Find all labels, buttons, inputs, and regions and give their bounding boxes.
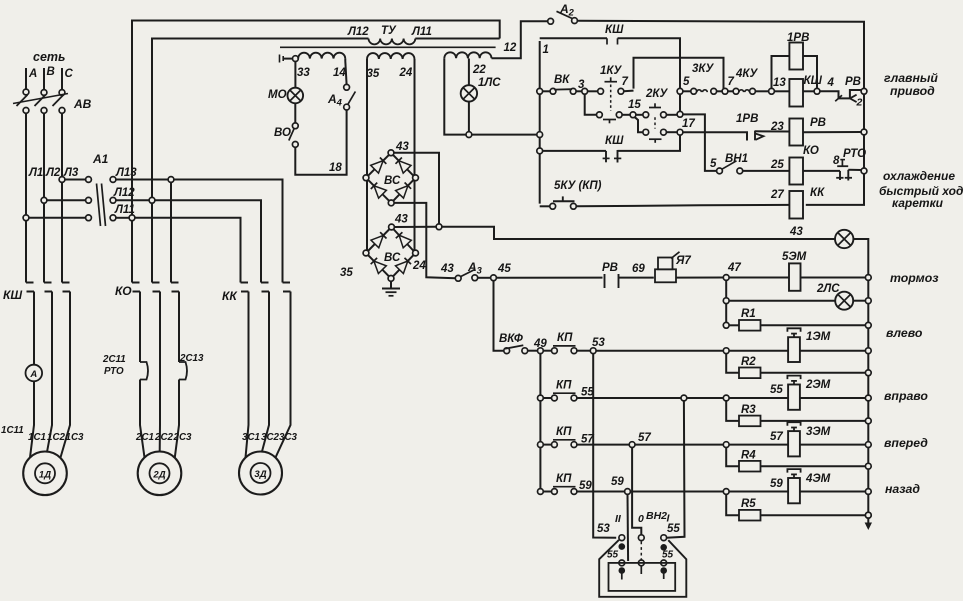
- svg-text:4: 4: [827, 77, 835, 89]
- wire to vpravo node: [687, 397, 724, 399]
- svg-text:R3: R3: [741, 404, 756, 416]
- svg-text:1С2: 1С2: [47, 432, 66, 443]
- ammeter A: [26, 365, 43, 382]
- svg-text:23: 23: [770, 121, 784, 133]
- wire VN1 to KO coil: [743, 170, 790, 172]
- contact 2KU upper: [643, 112, 649, 118]
- svg-text:охлаждение: охлаждение: [883, 169, 955, 183]
- contact VKF: [504, 348, 510, 354]
- svg-text:1КУ: 1КУ: [600, 65, 622, 77]
- svg-text:18: 18: [329, 162, 342, 174]
- node bus vlevo: [865, 348, 871, 354]
- svg-text:49: 49: [533, 338, 547, 350]
- wire nazad to 4EM: [729, 491, 788, 493]
- secondary winding 33-14: [298, 53, 345, 59]
- wire 22 right to switch A2: [492, 21, 548, 58]
- resistor R3: [726, 401, 739, 421]
- wire to node 17: [666, 131, 677, 133]
- svg-text:2С11: 2С11: [102, 354, 126, 365]
- node bus 2LS: [865, 298, 871, 304]
- svg-text:5: 5: [710, 158, 717, 170]
- wire 2LS row: [729, 300, 835, 302]
- node nazad: [723, 489, 729, 495]
- wire KP1 to node 53: [577, 350, 591, 352]
- relay coil KSh: [789, 79, 803, 107]
- wire vlevo to 1EM: [729, 350, 788, 352]
- wire VO down and bottom of MO loop: [295, 110, 346, 175]
- node 59: [625, 489, 631, 495]
- wire row L12 left: [47, 199, 86, 201]
- node 17: [677, 129, 683, 135]
- svg-text:2С2: 2С2: [154, 432, 174, 443]
- wire phase C to contactor rows: [61, 113, 63, 177]
- node 4: [814, 88, 820, 94]
- wire node5 column: [679, 91, 681, 112]
- switch VN2 lower contacts: [619, 560, 625, 566]
- wire 1LS down: [468, 102, 470, 132]
- svg-text:3С1: 3С1: [242, 432, 260, 443]
- wire Ya7 to node 47: [676, 277, 724, 279]
- svg-text:3С2: 3С2: [261, 432, 280, 443]
- wire A3 to node 45: [478, 277, 491, 279]
- svg-text:РВ: РВ: [602, 262, 618, 274]
- wire phase B: [43, 68, 45, 90]
- svg-text:22: 22: [472, 64, 486, 76]
- wire node45 to RV contact: [496, 277, 602, 279]
- wire motor3 mid: [262, 292, 269, 452]
- motor 3D: [239, 452, 282, 495]
- rectifier bridge VS1: [363, 150, 418, 206]
- node vpravo: [723, 395, 729, 401]
- wire phase A: [25, 68, 27, 89]
- svg-text:КП: КП: [557, 332, 573, 344]
- svg-text:ВН1: ВН1: [725, 153, 748, 165]
- wire KO coil to RTO: [803, 170, 840, 172]
- wire node5a to VN1: [683, 114, 717, 170]
- resistor R5: [726, 494, 739, 515]
- wire R1 to bus: [761, 324, 866, 326]
- svg-text:ТУ: ТУ: [381, 25, 397, 37]
- wire 2KU to node 5a: [666, 114, 677, 116]
- wire to vpered node: [635, 444, 724, 446]
- solenoid coil 5EM: [789, 263, 801, 290]
- wire bridge1 plus to node 43: [394, 153, 439, 224]
- svg-text:4ЭМ: 4ЭМ: [805, 473, 831, 485]
- control bus node 1: [539, 41, 541, 204]
- wire node 43 to brake lamp line: [442, 227, 835, 239]
- wire to RV coil: [755, 130, 789, 132]
- lamp 1LS: [461, 85, 477, 101]
- svg-text:КШ: КШ: [605, 24, 624, 36]
- svg-text:Л3: Л3: [63, 167, 79, 179]
- svg-text:2С3: 2С3: [173, 432, 193, 443]
- wire lamp43 to bus: [853, 239, 868, 513]
- wire 2EM to bus: [801, 397, 866, 399]
- wire motor1 right: [61, 292, 71, 458]
- wire node15 to 2KU lower: [635, 117, 644, 132]
- svg-text:4КУ: 4КУ: [735, 68, 758, 80]
- svg-text:1С3: 1С3: [66, 432, 85, 443]
- svg-text:3Д: 3Д: [254, 469, 266, 480]
- switch VO: [292, 123, 298, 129]
- svg-text:59: 59: [579, 480, 592, 492]
- wire row L13 left: [65, 179, 86, 181]
- svg-text:5КУ (КП): 5КУ (КП): [554, 180, 602, 192]
- switch VN2 contact II: [619, 535, 625, 541]
- node 13: [769, 88, 775, 94]
- svg-text:Я7: Я7: [675, 255, 691, 267]
- wire node15 to 2KU: [636, 114, 643, 116]
- svg-text:2Д: 2Д: [152, 470, 165, 481]
- shield symbol at winding 33: [279, 55, 281, 63]
- svg-text:1Д: 1Д: [39, 470, 51, 481]
- node 49: [538, 348, 544, 354]
- wire to nazad node: [630, 491, 723, 493]
- svg-text:3: 3: [578, 79, 585, 91]
- svg-text:тормоз: тормоз: [890, 271, 939, 285]
- contact 1KU NO: [598, 88, 604, 94]
- svg-text:7: 7: [728, 76, 735, 88]
- node 5a: [677, 111, 683, 117]
- wire motor3 right: [276, 292, 291, 458]
- wire 35 to bridges: [366, 59, 368, 250]
- wire RV coil to bus: [803, 131, 861, 133]
- wire 57 to VN2 position 0: [632, 447, 641, 535]
- wire motor2 mid: [159, 292, 161, 452]
- wire 1KU up to net7: [624, 90, 634, 93]
- relay coil 1RV branch: [772, 56, 790, 89]
- node tap L3: [59, 177, 65, 183]
- svg-text:КО: КО: [803, 145, 819, 157]
- node 2LS row: [723, 298, 729, 304]
- svg-text:43: 43: [789, 226, 803, 238]
- svg-text:1ЛС: 1ЛС: [478, 77, 501, 89]
- contact 4KU: [733, 88, 739, 94]
- svg-text:1РВ: 1РВ: [736, 113, 758, 125]
- svg-text:КШ: КШ: [605, 135, 624, 147]
- svg-text:КО: КО: [115, 284, 132, 298]
- svg-text:ВС: ВС: [384, 252, 401, 264]
- wire 2LS to bus: [853, 300, 865, 302]
- contactor KSh main contacts: [26, 283, 70, 292]
- switch A3: [455, 275, 461, 281]
- svg-text:5: 5: [683, 76, 690, 88]
- wire node3 to 1KU: [587, 90, 598, 92]
- contact VK: [550, 88, 556, 94]
- wire row L11 left: [29, 217, 86, 219]
- wire 1EM to bus: [801, 350, 866, 352]
- svg-text:РТО: РТО: [104, 366, 124, 377]
- svg-text:43: 43: [440, 263, 454, 275]
- wire phase B to contactor rows: [43, 113, 45, 198]
- svg-text:69: 69: [632, 263, 645, 275]
- node R1 row: [723, 322, 729, 328]
- node bus 1LS: [537, 132, 543, 138]
- wire KSh coil to node 4: [803, 90, 814, 92]
- svg-text:17: 17: [682, 118, 695, 130]
- svg-text:2ЛС: 2ЛС: [816, 283, 840, 295]
- node 3: [582, 88, 588, 94]
- svg-text:55: 55: [662, 550, 674, 561]
- node junction L13: [168, 177, 174, 183]
- solenoid 4EM with armature: [788, 478, 800, 503]
- circuit breaker AB: [13, 89, 68, 113]
- svg-text:РТО: РТО: [843, 148, 866, 160]
- svg-text:3ЭМ: 3ЭМ: [806, 426, 831, 438]
- svg-text:сеть: сеть: [33, 50, 65, 64]
- motor 2D: [138, 452, 182, 496]
- contactor KK main contacts: [241, 283, 291, 292]
- svg-text:КП: КП: [556, 473, 572, 485]
- svg-text:13: 13: [773, 77, 786, 89]
- plug Ya7: [655, 269, 676, 282]
- svg-text:РВ: РВ: [845, 76, 861, 88]
- svg-text:0: 0: [638, 513, 644, 525]
- svg-text:Л2: Л2: [45, 167, 61, 179]
- contact 1RV time delay: [683, 132, 747, 140]
- svg-text:влево: влево: [886, 326, 923, 340]
- wire KP column: [539, 353, 541, 491]
- svg-text:R4: R4: [741, 450, 756, 462]
- wire vpravo row: [577, 397, 682, 399]
- resistor R2: [726, 353, 739, 372]
- solenoid 3EM with armature: [788, 431, 800, 456]
- wire KSh aux row: [540, 150, 606, 152]
- node 15: [630, 112, 636, 118]
- svg-text:каретки: каретки: [892, 196, 944, 210]
- wire aux to node17: [618, 135, 681, 151]
- wire row L13 right: [116, 179, 169, 181]
- node junction L12: [149, 197, 155, 203]
- wire net 7 link: [634, 58, 724, 89]
- relay coil 1RV: [789, 43, 803, 70]
- wire nazad row: [577, 491, 625, 493]
- switch VN2 contact 0: [638, 535, 644, 541]
- contact KSh NC top: [606, 38, 608, 44]
- svg-text:1С11: 1С11: [1, 425, 24, 436]
- wire motor2 left with RTO heater 2C11: [139, 292, 141, 363]
- push button 5KU(KP): [540, 205, 550, 207]
- svg-text:А1: А1: [92, 152, 109, 166]
- wire vpered to 3EM: [729, 444, 788, 446]
- lamp MO: [288, 88, 304, 104]
- resistor R1: [729, 324, 739, 326]
- wire motor2 right with RTO heater 2C13: [178, 292, 180, 363]
- contact 3KU: [691, 88, 697, 94]
- node 7b: [722, 88, 728, 94]
- node 55 drop: [681, 395, 687, 401]
- relay coil RV: [789, 119, 803, 146]
- contact RV NO brake: [604, 274, 606, 288]
- node 45: [491, 275, 497, 281]
- node vlevo: [723, 348, 729, 354]
- svg-text:57: 57: [638, 432, 651, 444]
- switch VN2 contact I: [661, 535, 667, 541]
- lamp MO branch wire: [294, 61, 296, 87]
- svg-text:А: А: [29, 369, 37, 380]
- node bus bottom: [865, 512, 871, 518]
- svg-text:Л13: Л13: [115, 167, 137, 179]
- contact KP row4 (59): [538, 489, 544, 495]
- svg-text:КК: КК: [810, 187, 825, 199]
- node tap L2: [41, 197, 47, 203]
- svg-text:главный: главный: [884, 71, 938, 85]
- wire 22 left down: [444, 58, 466, 134]
- wire 5EM to bus: [800, 277, 865, 279]
- svg-text:С: С: [65, 68, 74, 80]
- node bus vpravo: [865, 395, 871, 401]
- svg-text:43: 43: [395, 141, 409, 153]
- wire motor1 mid: [47, 292, 52, 453]
- svg-text:59: 59: [770, 478, 783, 490]
- rectifier bridge VS2: [363, 224, 418, 281]
- svg-text:14: 14: [333, 67, 346, 79]
- contactor A1: [86, 177, 116, 226]
- node junction L11: [129, 215, 135, 221]
- svg-text:А: А: [28, 68, 37, 80]
- wire vpered row: [577, 444, 630, 446]
- svg-text:КП: КП: [556, 426, 572, 438]
- motor 1D: [23, 452, 67, 496]
- lamp 43 brake: [835, 230, 853, 248]
- svg-text:7: 7: [622, 76, 629, 88]
- lamp 2LS: [835, 292, 853, 310]
- svg-text:КШ: КШ: [804, 75, 823, 87]
- contact RV time delay with arrow 2: [820, 91, 850, 98]
- contact KP row3 (57): [538, 442, 544, 448]
- svg-text:Л1: Л1: [28, 167, 43, 179]
- node 1LS bottom: [466, 132, 472, 138]
- svg-text:ВК: ВК: [554, 74, 570, 86]
- node 43: [436, 224, 442, 230]
- svg-text:55: 55: [770, 384, 783, 396]
- svg-text:45: 45: [497, 263, 511, 275]
- node 47: [723, 275, 729, 281]
- node 33: [293, 56, 299, 62]
- node 53: [590, 348, 596, 354]
- wire 59 to VN2 bottom: [627, 494, 630, 561]
- wire node7b to 4KU: [728, 90, 734, 92]
- wire phase C to KSh: [61, 182, 63, 282]
- secondary winding 22: [444, 52, 468, 58]
- svg-text:АВ: АВ: [73, 97, 92, 111]
- wire lamp 1LS tap: [468, 59, 470, 86]
- wire row1 from bus: [542, 90, 550, 92]
- svg-text:47: 47: [727, 262, 741, 274]
- svg-text:59: 59: [611, 476, 624, 488]
- secondary winding 35-24: [367, 53, 414, 59]
- wire motor3 left: [246, 292, 249, 458]
- wire KSh holdback row: [540, 37, 607, 39]
- svg-text:1ЭМ: 1ЭМ: [806, 331, 831, 343]
- wire phase A to KSh: [25, 221, 27, 283]
- svg-text:1РВ: 1РВ: [787, 32, 809, 44]
- node 57: [629, 442, 635, 448]
- svg-text:53: 53: [597, 523, 610, 535]
- transformer TU primary winding: [369, 39, 416, 45]
- wire phase A to contactor rows: [25, 113, 27, 215]
- svg-text:1: 1: [543, 44, 549, 56]
- wire row L12 right: [116, 199, 150, 201]
- wire row L11 right: [116, 217, 130, 219]
- svg-text:57: 57: [770, 431, 783, 443]
- wire node49 to KP1: [543, 350, 552, 352]
- node bus R1: [865, 322, 871, 328]
- svg-text:35: 35: [340, 267, 353, 279]
- ground: [390, 281, 392, 288]
- node 5 row1: [677, 88, 683, 94]
- contact KP row2 (55): [538, 395, 544, 401]
- svg-text:33: 33: [297, 67, 310, 79]
- switch VN2 inner frame: [609, 563, 676, 591]
- wire node13 to KSh coil: [774, 90, 789, 92]
- svg-text:ВКФ: ВКФ: [499, 333, 523, 345]
- wire 4EM to bus: [801, 491, 866, 493]
- switch VN2 outer frame: [599, 540, 686, 597]
- wire KO drop right: [170, 182, 172, 282]
- wire phase C: [61, 68, 63, 90]
- svg-text:3КУ: 3КУ: [692, 63, 714, 75]
- wire bridge2 plus to node 43: [394, 226, 436, 228]
- wire node47 down: [725, 280, 727, 322]
- svg-text:вперед: вперед: [884, 436, 928, 450]
- svg-text:Л11: Л11: [411, 26, 432, 38]
- wire to node 15: [622, 114, 630, 116]
- solenoid 2EM with armature: [788, 385, 800, 410]
- wire 3EM to bus: [801, 444, 866, 446]
- svg-text:25: 25: [770, 159, 784, 171]
- relay coil KO: [789, 158, 803, 185]
- contactor KO main contacts: [132, 283, 179, 292]
- svg-text:3С3: 3С3: [279, 432, 298, 443]
- arrow bus end: [867, 518, 869, 525]
- svg-text:РВ: РВ: [810, 117, 826, 129]
- wire KSh row to node 5 drop: [618, 38, 681, 88]
- wire 14 to A4: [345, 61, 346, 85]
- svg-text:27: 27: [770, 189, 784, 201]
- svg-text:2С1: 2С1: [135, 432, 154, 443]
- svg-text:ВН2: ВН2: [646, 510, 667, 522]
- svg-text:Л12: Л12: [347, 26, 369, 38]
- svg-text:1С1: 1С1: [28, 432, 46, 443]
- switch A4: [344, 84, 350, 90]
- wire RTO to bus: [848, 169, 861, 171]
- wire bridge1 minus to switch A3: [394, 203, 456, 278]
- svg-text:15: 15: [628, 99, 641, 111]
- solenoid 1EM with armature: [788, 337, 800, 362]
- wire RV to Ya7: [619, 277, 654, 279]
- svg-text:КШ: КШ: [3, 288, 22, 302]
- node bus right row1: [861, 88, 867, 94]
- wire A2 to right bus: [577, 21, 864, 205]
- node tap L11: [23, 215, 29, 221]
- node bus aux: [537, 148, 543, 154]
- svg-text:2: 2: [856, 97, 863, 109]
- relay coil KK: [789, 191, 803, 219]
- switch VN1: [717, 168, 723, 174]
- wire phase B to KSh: [43, 203, 45, 283]
- svg-text:R1: R1: [741, 308, 756, 320]
- svg-text:24: 24: [412, 260, 426, 272]
- wire left row (vlevo): [596, 350, 724, 352]
- wire 1LS to control bus: [472, 134, 537, 136]
- contact RTO NC: [839, 171, 841, 180]
- resistor R4: [726, 447, 739, 466]
- wire node47 to 5EM: [729, 277, 789, 279]
- svg-text:55: 55: [667, 523, 680, 535]
- contact KSh NO aux: [605, 151, 607, 162]
- wire node45 down to VKF: [494, 281, 505, 351]
